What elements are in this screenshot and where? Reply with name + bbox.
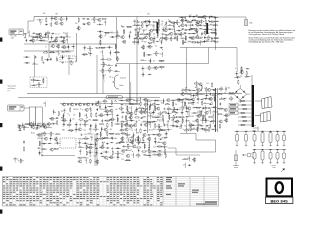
resistor R37 <box>144 21 149 22</box>
resistor R137 <box>149 106 150 111</box>
junction <box>174 113 177 116</box>
wire <box>63 39 65 44</box>
wire <box>183 89 189 91</box>
wire <box>83 138 89 140</box>
resistor R79 <box>123 29 124 34</box>
wire <box>211 89 217 91</box>
wire <box>203 120 209 122</box>
junction <box>110 121 113 124</box>
table text entries <box>3 176 5 179</box>
junction <box>161 48 164 51</box>
ground <box>53 122 55 125</box>
capacitor C74 <box>70 119 72 122</box>
wire <box>146 121 152 123</box>
wire <box>140 109 142 114</box>
resistor R12 <box>100 40 101 45</box>
capacitor C62 <box>31 125 33 128</box>
connector J2 input box lower <box>8 105 25 111</box>
film edge mark <box>0 167 2 171</box>
wire <box>119 141 125 143</box>
junction <box>39 23 42 26</box>
wire <box>85 113 87 118</box>
junction <box>177 120 180 123</box>
wire <box>191 95 197 97</box>
ground <box>80 133 82 136</box>
wire <box>128 125 134 127</box>
ground <box>111 147 113 150</box>
wire <box>82 53 88 55</box>
resistor R156 <box>155 123 156 128</box>
wire <box>162 27 164 32</box>
junction <box>83 54 86 57</box>
capacitor C3 <box>45 24 48 26</box>
wire <box>153 36 155 41</box>
wire <box>190 124 196 126</box>
arrow mark <box>281 169 285 173</box>
wire <box>150 102 152 107</box>
capacitor C125 <box>191 124 194 126</box>
svg-text:Spannungen: Spannungen <box>8 86 17 88</box>
wire <box>117 155 119 160</box>
svg-text:TR4: TR4 <box>187 121 190 123</box>
wire <box>234 76 240 78</box>
resistor R92 <box>93 119 98 120</box>
wire <box>161 39 163 44</box>
capacitor C66 <box>67 103 69 106</box>
junction <box>86 145 89 148</box>
junction <box>190 14 193 17</box>
capacitor C98 <box>121 111 124 113</box>
junction <box>140 108 143 111</box>
resistor R155 <box>121 123 122 128</box>
bus output rail bold <box>215 88 217 132</box>
capacitor C9 <box>60 36 63 38</box>
diode D22 <box>187 33 191 34</box>
transistor TR57 <box>54 138 58 141</box>
resistor R121 <box>90 150 91 155</box>
wire <box>78 26 80 31</box>
capacitor C102 <box>130 120 133 122</box>
wire <box>214 23 216 28</box>
svg-text:BEO 84S: BEO 84S <box>270 198 288 203</box>
resistor R98 <box>107 123 108 128</box>
diode D48 <box>142 116 146 117</box>
ground <box>129 31 131 34</box>
junction <box>122 121 125 124</box>
resistor R183 <box>214 96 215 101</box>
junction <box>58 52 61 55</box>
wire <box>159 66 165 68</box>
switch contact S2 x270.5 <box>269 149 272 164</box>
junction <box>148 144 151 147</box>
wire <box>213 37 219 39</box>
wire <box>174 31 176 36</box>
wire <box>201 119 203 124</box>
wire <box>95 142 97 147</box>
fuse F1 <box>245 20 248 26</box>
junction <box>18 125 21 128</box>
wire <box>125 115 127 120</box>
junction <box>180 116 183 119</box>
resistor R44 <box>165 24 166 29</box>
capacitor C8 <box>51 33 54 35</box>
junction <box>114 99 117 102</box>
capacitor C92 <box>106 147 109 149</box>
capacitor C86 <box>96 133 99 135</box>
wire <box>62 116 64 121</box>
wire <box>57 50 59 55</box>
transistor TR29 <box>180 24 184 27</box>
junction <box>196 127 199 130</box>
capacitor C26 <box>160 47 163 49</box>
wire <box>42 37 48 39</box>
transistor TR6 <box>76 27 80 30</box>
junction <box>142 32 145 35</box>
resistor R134 <box>119 108 124 109</box>
wire <box>58 36 64 38</box>
resistor R76 <box>211 41 216 42</box>
wire <box>210 32 216 34</box>
junction <box>165 136 168 139</box>
wire <box>158 60 164 62</box>
svg-text:2k2: 2k2 <box>115 138 118 140</box>
capacitor C49 <box>207 24 209 27</box>
wire <box>205 127 207 132</box>
wire <box>187 41 193 43</box>
wire <box>165 131 167 136</box>
junction <box>105 33 108 36</box>
svg-text:Relais: Relais <box>31 133 35 135</box>
resistor R13 <box>43 52 48 53</box>
resistor R60 <box>192 20 197 21</box>
diode D6 <box>61 51 65 52</box>
junction <box>117 58 120 61</box>
capacitor C32 <box>168 20 171 22</box>
wire <box>161 146 167 148</box>
wire <box>100 34 102 39</box>
wire <box>137 31 139 36</box>
switch contact S1 x270.5 <box>269 131 272 147</box>
svg-text:10µ: 10µ <box>83 129 86 131</box>
svg-text:330k: 330k <box>89 109 93 111</box>
transistor TR17 <box>147 45 151 48</box>
svg-text:+14V: +14V <box>42 13 46 15</box>
capacitor C53 <box>215 28 217 31</box>
resistor R123 <box>117 151 118 156</box>
diode D38 <box>110 142 114 143</box>
wire <box>183 98 189 100</box>
svg-text:47k: 47k <box>183 164 186 166</box>
resistor R56 <box>132 42 137 43</box>
wire <box>98 138 104 140</box>
capacitor C23 <box>25 56 28 58</box>
transistor TR35 <box>122 40 126 43</box>
junction <box>160 60 163 63</box>
wire <box>144 33 150 35</box>
resistor R20 <box>114 52 119 53</box>
ground <box>189 89 191 92</box>
svg-text:4µ7: 4µ7 <box>197 112 200 114</box>
transistor TR60 <box>88 146 92 149</box>
resistor R215 <box>20 158 21 163</box>
capacitor C124 <box>185 116 188 118</box>
resistor R210 <box>246 71 247 76</box>
resistor R130 <box>143 104 148 105</box>
junction <box>111 111 114 114</box>
wire <box>56 56 58 61</box>
wire <box>50 136 52 141</box>
resistor R54 <box>171 36 172 41</box>
junction <box>131 129 134 132</box>
resistor R19 <box>115 44 116 49</box>
resistor R8 <box>32 37 37 38</box>
wire <box>125 159 131 161</box>
wire <box>96 159 98 164</box>
transistor TR90 <box>157 153 161 156</box>
diode D2 <box>32 33 36 34</box>
wire <box>51 16 53 21</box>
wire <box>63 122 65 127</box>
capacitor C29 <box>142 74 145 76</box>
capacitor C10 <box>63 36 65 39</box>
wire <box>41 143 47 145</box>
resistor R149 <box>162 115 163 120</box>
wire <box>168 38 174 40</box>
diode D5 <box>71 46 75 47</box>
resistor R173 <box>148 148 149 153</box>
capacitor C81 <box>105 106 107 109</box>
transistor TR39 <box>17 126 21 129</box>
wire <box>99 146 105 148</box>
diode D50 <box>152 134 156 135</box>
resistor R124 <box>77 157 82 158</box>
wire vertical x42 lower <box>41 132 43 153</box>
capacitor C61 <box>129 35 131 38</box>
svg-text:Tonband: Tonband <box>120 78 126 80</box>
transistor TR82 <box>156 133 160 136</box>
resistor R167 <box>138 140 139 145</box>
svg-text:22n: 22n <box>166 124 169 126</box>
wire <box>210 21 216 23</box>
junction <box>204 119 207 122</box>
wire horizontal y51 <box>24 50 74 52</box>
transistor TR52 <box>110 118 114 121</box>
resistor R108 <box>54 148 59 149</box>
resistor R161 <box>160 130 165 131</box>
capacitor C127 <box>214 124 216 127</box>
resistor R184 <box>184 101 185 106</box>
resistor R119 <box>86 145 87 150</box>
wire <box>142 121 148 123</box>
wire <box>124 99 130 101</box>
wire <box>95 150 97 155</box>
resistor R176 <box>165 153 166 158</box>
capacitor C56 <box>215 32 217 35</box>
wire <box>92 119 98 121</box>
wire vertical bus x137 <box>136 17 138 98</box>
wire <box>145 102 147 107</box>
wire <box>131 106 133 111</box>
resistor R16 <box>95 47 100 48</box>
wire <box>152 154 158 156</box>
resistor R157 <box>158 124 159 129</box>
diode D12 <box>136 21 140 22</box>
wire <box>220 86 222 91</box>
connector edge bar P3 <box>252 85 254 127</box>
capacitor C47 <box>191 24 194 26</box>
junction <box>184 32 187 35</box>
resistor R39 <box>158 19 159 24</box>
capacitor C83 <box>56 142 58 145</box>
svg-text:0,1: 0,1 <box>161 25 163 27</box>
speaker LS1 <box>255 97 272 109</box>
junction <box>188 121 191 124</box>
wire <box>212 111 218 113</box>
transistor TR23 <box>143 36 147 39</box>
capacitor C93 <box>100 153 103 155</box>
svg-text:560: 560 <box>62 129 65 131</box>
wire +supply top bus <box>34 16 216 18</box>
transistor TR68 <box>166 99 170 102</box>
brace annotation <box>113 75 119 89</box>
wire <box>51 35 53 40</box>
capacitor C11 <box>25 39 27 42</box>
transistor TR45 <box>85 103 89 106</box>
capacitor C121 <box>208 107 211 109</box>
capacitor C37 <box>133 38 136 40</box>
wire <box>46 123 52 125</box>
wire <box>118 100 124 102</box>
wire <box>201 19 203 24</box>
resistor R87 <box>79 112 80 117</box>
junction <box>195 14 198 17</box>
svg-text:TR4: TR4 <box>88 119 91 121</box>
capacitor C41 <box>192 16 195 18</box>
resistor R61 <box>199 21 204 22</box>
wire <box>23 127 29 129</box>
capacitor C60 <box>203 40 205 43</box>
transistor TR1 AD161 <box>127 137 134 143</box>
wire <box>149 122 151 127</box>
resistor R59 <box>187 21 192 22</box>
wire <box>210 123 212 128</box>
resistor R169 <box>136 147 141 148</box>
wire <box>213 113 215 118</box>
wire <box>53 109 55 114</box>
capacitor C72 <box>107 113 109 116</box>
electrolytic C31 <box>206 23 208 34</box>
capacitor C112 <box>164 145 166 148</box>
svg-text:1k: 1k <box>55 34 57 36</box>
junction <box>106 158 109 161</box>
transistor TR19 <box>149 29 153 32</box>
svg-text:47k: 47k <box>73 115 76 117</box>
wire <box>152 117 158 119</box>
ground <box>163 108 165 111</box>
transistor TR69 <box>176 98 180 101</box>
wire <box>199 128 205 130</box>
transistor TR80 <box>124 128 128 131</box>
resistor R66 <box>211 29 216 30</box>
wire <box>153 39 155 44</box>
wire <box>137 153 139 158</box>
net label box OUT R <box>229 107 238 110</box>
resistor R1 <box>46 17 47 22</box>
wire <box>61 46 67 48</box>
svg-text:22n: 22n <box>116 32 119 34</box>
resistor R133 <box>172 101 173 106</box>
junction <box>110 136 113 139</box>
wire <box>78 147 84 149</box>
wire <box>109 36 115 38</box>
junction <box>88 128 91 131</box>
resistor R43 <box>158 23 159 28</box>
transistor TR40 <box>43 125 47 128</box>
diode D49 <box>143 130 147 131</box>
diode D56 <box>147 155 151 156</box>
wire <box>202 28 208 30</box>
wire <box>115 44 117 49</box>
junction <box>126 143 129 146</box>
svg-text:2k2: 2k2 <box>179 128 182 130</box>
capacitor C63 <box>36 126 38 129</box>
diode D60 <box>191 102 195 103</box>
junction <box>204 87 207 90</box>
capacitor C65 <box>56 117 59 119</box>
wire <box>129 34 131 39</box>
wire <box>186 99 192 101</box>
wire <box>107 65 113 67</box>
wire <box>184 101 186 106</box>
transistor TR88 <box>121 149 125 152</box>
transistor TR70 <box>156 107 160 110</box>
parts list table <box>3 177 219 207</box>
wire <box>135 28 137 33</box>
wire <box>98 114 104 116</box>
wire <box>197 16 203 18</box>
resistor R150 <box>169 115 170 120</box>
svg-text:100: 100 <box>121 154 124 156</box>
wire vertical x49 <box>48 44 50 58</box>
diode D55 <box>143 154 147 155</box>
resistor R175 <box>135 155 140 156</box>
wire <box>172 101 174 106</box>
svg-text:100: 100 <box>188 25 191 27</box>
resistor R162 <box>121 133 126 134</box>
resistor R168 <box>128 144 129 149</box>
transistor TR71 <box>129 112 133 115</box>
resistor R138 <box>155 106 156 111</box>
wire <box>104 120 110 122</box>
diode D21 <box>203 29 207 30</box>
junction <box>136 19 139 22</box>
capacitor C58 <box>204 36 206 39</box>
diode D66 <box>223 98 227 99</box>
resistor R196 <box>205 118 206 123</box>
junction <box>43 132 46 135</box>
svg-text:100: 100 <box>181 90 184 92</box>
wire <box>159 111 161 116</box>
film edge mark <box>0 210 2 214</box>
transistor TR102 <box>239 71 243 74</box>
film edge mark <box>0 80 2 84</box>
wire <box>117 117 119 122</box>
svg-text:TR4: TR4 <box>90 137 93 139</box>
wire <box>182 88 184 93</box>
resistor R112 <box>109 133 114 134</box>
junction <box>70 130 73 133</box>
wire <box>103 151 109 153</box>
